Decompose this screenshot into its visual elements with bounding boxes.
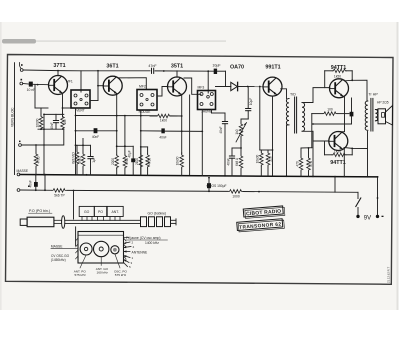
wire bus end to battery: [377, 177, 379, 215]
resistor 2100 x140.8: [140, 147, 142, 154]
wire junction x73.5 down to tuner: [73, 190, 75, 192]
band boxes GO PO ANT: [79, 206, 94, 216]
wire rod to chassis: [75, 227, 77, 246]
svg-text:MF3: MF3: [198, 86, 205, 90]
wire top rail y=70.8: [23, 69, 150, 72]
svg-text:40nF: 40nF: [50, 122, 54, 129]
svg-text:35T1: 35T1: [171, 64, 183, 70]
capacitor 40nF x225 MF3: [224, 113, 226, 121]
capacitor 10nF input: [23, 83, 29, 86]
svg-text:1µF: 1µF: [92, 157, 96, 163]
rod end: [171, 219, 177, 221]
capacitor 10uF detector: [247, 87, 249, 108]
svg-text:94TT1: 94TT1: [330, 160, 346, 166]
capacitor 40nF x56: [55, 114, 57, 120]
scan smudge top-left: [2, 39, 36, 44]
wire MF1 bottom down: [75, 108, 77, 175]
svg-text:MF2: MF2: [139, 85, 146, 89]
svg-text:100: 100: [327, 108, 333, 112]
transistor 991T1: [263, 77, 282, 96]
wire bus to rail x45: [44, 175, 46, 191]
capacitor 40nF right: [351, 98, 353, 112]
arrows from block right: [124, 242, 131, 244]
resistor 470 x301: [300, 148, 302, 157]
transistor 35T1: [168, 77, 187, 96]
svg-text:MF1: MF1: [66, 80, 73, 84]
wire extra vertical: [189, 95, 191, 176]
wire left bloc vertical: [14, 63, 16, 175]
capacitor 40uF x133.2 electrolytic: [132, 146, 134, 158]
wire top link cluster2: [76, 144, 91, 146]
wire drop to diode line: [225, 71, 227, 86]
node tp terminal lower: [17, 189, 20, 192]
chassis block CV: [78, 232, 124, 264]
wire TrD primary bottom to bus: [287, 125, 289, 176]
svg-text:160 kHz: 160 kHz: [97, 271, 109, 275]
svg-text:10 nF: 10 nF: [27, 88, 36, 92]
node A antenna terminal a: [20, 69, 23, 72]
svg-text:4700: 4700: [37, 156, 41, 163]
svg-text:10k00: 10k00: [256, 154, 260, 163]
resistor 10000: [40, 114, 42, 116]
svg-text:220: 220: [268, 156, 272, 162]
svg-text:VERS BLOC: VERS BLOC: [11, 107, 15, 127]
transistor 94TT1 upper: [330, 79, 349, 98]
svg-text:6k8 VIO: 6k8 VIO: [71, 152, 75, 164]
wire MF2 bottom down: [140, 110, 142, 175]
svg-text:JAUNE: JAUNE: [201, 110, 211, 114]
svg-text:40µF: 40µF: [127, 150, 131, 157]
capacitor 40nF black on B line: [94, 128, 98, 133]
hatches left edge: [76, 238, 79, 241]
svg-text:4700: 4700: [125, 158, 129, 165]
svg-text:1400 kHz: 1400 kHz: [145, 241, 159, 245]
transistor 94TT1 lower: [329, 132, 348, 151]
wire 37T1 emitter down: [62, 93, 64, 117]
resistor 1000 horizontal: [150, 115, 157, 117]
capacitor 150uF electrolytic: [208, 177, 210, 179]
svg-text:36T1: 36T1: [106, 64, 118, 70]
resistor 1k5 emitter 37T1: [61, 116, 65, 130]
resistor 6k8A below pot: [240, 141, 242, 155]
svg-text:1k50: 1k50: [334, 150, 341, 154]
svg-text:991T1: 991T1: [265, 65, 280, 71]
resistor 2200 x116.7: [115, 155, 119, 169]
battery terminal minus: [356, 215, 359, 218]
wire 37T1 collector to rail: [57, 71, 59, 76]
svg-text:VERT: VERT: [76, 109, 84, 113]
wire rail drop into MF1: [80, 71, 82, 92]
wire 35T1 collector into MF3: [184, 78, 201, 94]
wire TrD secondary top to 94TT1 base: [303, 88, 330, 103]
svg-text:P.O (PO bin.): P.O (PO bin.): [29, 209, 50, 213]
svg-text:1k10: 1k10: [77, 156, 81, 163]
svg-text:575 kHz: 575 kHz: [115, 273, 127, 277]
svg-text:2200: 2200: [111, 158, 115, 165]
wire bias loop verticals: [324, 71, 326, 88]
wire MF3 bottom-left drop: [201, 110, 203, 177]
wire terminal to AGC: [19, 144, 22, 147]
rod segment: [54, 220, 62, 223]
svg-text:47nF: 47nF: [148, 64, 157, 68]
svg-text:37T1: 37T1: [53, 63, 65, 69]
wire MF1 to 36T1 base: [90, 100, 98, 102]
svg-text:MASSE: MASSE: [17, 169, 29, 173]
node masse terminal: [17, 173, 20, 176]
svg-text:MASSE: MASSE: [51, 244, 63, 248]
resistor 10k00 x261.3: [260, 150, 262, 152]
stamp TRANSONOR 62: [237, 219, 285, 232]
resistor 4700 x36: [35, 145, 37, 153]
rod long lines: [65, 219, 140, 221]
resistor 6k8 x75: [76, 145, 78, 151]
svg-text:HP 2Ω5: HP 2Ω5: [377, 100, 389, 104]
resistor 1k10 x82.5: [82, 145, 84, 153]
wire 991T1 emitter down to bus: [272, 96, 274, 176]
capacitor 40nF x232: [231, 148, 233, 156]
wire negative rail: [20, 189, 52, 191]
svg-text:40nF: 40nF: [92, 135, 99, 139]
svg-text:575 kHz: 575 kHz: [75, 273, 87, 277]
resistor 5k6 TP: [52, 189, 66, 193]
wire speaker return down to bus: [367, 149, 369, 177]
wire riser x124.9 A to link: [124, 116, 126, 147]
resistor 4700 x147.6: [147, 147, 149, 154]
svg-text:GO: GO: [84, 210, 90, 214]
svg-text:470: 470: [295, 161, 299, 167]
svg-text:OA70: OA70: [230, 65, 244, 71]
leader lines to bottom labels: [80, 255, 86, 268]
wire TrD secondary bottom to lower base: [303, 131, 329, 141]
coil GO rects: [141, 217, 147, 227]
CV circle 2: [94, 241, 109, 256]
wire node B left y130.8: [76, 130, 117, 132]
svg-text:40nF: 40nF: [219, 126, 223, 133]
svg-text:ANT.: ANT.: [112, 210, 119, 214]
battery terminal plus: [376, 215, 379, 218]
svg-text:Tr HP: Tr HP: [369, 92, 379, 96]
transformer MF1: [71, 90, 90, 108]
wire 36T1 collector into MF2: [118, 78, 146, 90]
wire node A y115.5: [76, 115, 157, 117]
ferrite rod end cap: [20, 219, 27, 225]
svg-text:9V: 9V: [364, 215, 371, 221]
switch: [357, 192, 359, 198]
svg-text:TrD: TrD: [290, 93, 296, 97]
svg-text:10µF: 10µF: [249, 98, 253, 105]
ground bus: [20, 175, 378, 177]
wire MF2 to 35T1 base: [157, 87, 168, 97]
wire bus to rail x335: [334, 177, 336, 193]
svg-text:PO: PO: [98, 210, 103, 214]
capacitor 47nF inline top rail: [152, 68, 154, 73]
wire upper emitter down: [338, 96, 344, 131]
node B input terminal b: [20, 82, 23, 85]
wire 35T1 emitter down: [181, 94, 183, 153]
svg-text:1k0: 1k0: [235, 129, 239, 134]
svg-text:40nF: 40nF: [29, 180, 33, 187]
wire lower emitter to bus: [343, 149, 345, 177]
ferrite rod PO coil body: [27, 217, 54, 227]
wire x311.8 down to bus: [311, 114, 313, 148]
wire link y146.3: [117, 145, 134, 147]
resistor 1k50 bias lower loop: [325, 154, 333, 156]
svg-text:10k00: 10k00: [176, 156, 180, 165]
svg-text:(1450kHz): (1450kHz): [51, 258, 66, 262]
transistor 37T1: [49, 76, 68, 95]
stamp CIBOT RADIO: [243, 206, 285, 219]
svg-text:6k8 A: 6k8 A: [235, 157, 239, 166]
svg-text:1000: 1000: [232, 195, 240, 199]
svg-text:1k5: 1k5: [63, 119, 67, 124]
transistor 36T1: [103, 76, 122, 95]
svg-text:GO (bobine): GO (bobine): [148, 212, 167, 216]
resistor 47 x308.5: [308, 148, 310, 157]
svg-text:5k6 TP: 5k6 TP: [54, 194, 65, 198]
transformer MF2: [137, 90, 157, 111]
transformer MF3: [198, 91, 216, 110]
capacitor 40nF bus-rail left: [35, 175, 37, 182]
svg-text:2100: 2100: [135, 158, 139, 165]
svg-text:1k50: 1k50: [334, 74, 341, 78]
CV circle 3 trimmer: [111, 246, 119, 254]
potentiometer volume 5kA: [241, 119, 248, 123]
wire AGC node line y129.2 left: [38, 128, 64, 130]
capacitor 10uF electrolytic inline top rail: [214, 69, 217, 74]
CV circle 1: [80, 243, 92, 255]
wire x44 AGC to bus: [43, 114, 45, 174]
wire 36T1 emitter down: [116, 95, 118, 155]
svg-text:47Ω: 47Ω: [309, 160, 313, 167]
resistor 1000 rail: [229, 190, 243, 194]
svg-text:21.12.62 R.T: 21.12.62 R.T: [387, 267, 391, 283]
box pins: [81, 217, 83, 221]
svg-text:40nF: 40nF: [226, 158, 230, 165]
wire 991T1 collector to TrD primary: [281, 89, 287, 99]
svg-text:1k00: 1k00: [160, 118, 167, 122]
svg-text:Fil jaune (CV osc amp): Fil jaune (CV osc amp): [126, 236, 160, 240]
wire MF2 line y130.8 with cap 40nF: [141, 130, 162, 132]
resistor 220 x268: [267, 150, 269, 152]
border frame: [6, 55, 394, 285]
wire upper collector to Tr HP: [345, 80, 368, 101]
resistor 4700 x124.9: [124, 146, 126, 154]
rod disc: [62, 216, 65, 229]
wire x313 secondary to bus: [312, 131, 314, 176]
junction dots on bus: [43, 174, 45, 176]
resistor 1k50 bias upper loop: [325, 70, 333, 72]
svg-text:GROS 150µF: GROS 150µF: [207, 184, 227, 188]
svg-text:4700: 4700: [148, 158, 152, 165]
wire lower collector to Tr HP bottom: [344, 132, 368, 149]
svg-text:40nF: 40nF: [159, 135, 166, 139]
resistor 100: [312, 113, 323, 115]
capacitor 1uF x90: [90, 145, 92, 156]
svg-text:10µF: 10µF: [212, 64, 221, 68]
svg-text:ANTENNE: ANTENNE: [132, 250, 149, 254]
wire detector volume drop x259.8: [260, 149, 273, 151]
resistor 10k00 x181: [181, 153, 183, 154]
svg-text:10000: 10000: [36, 118, 40, 127]
